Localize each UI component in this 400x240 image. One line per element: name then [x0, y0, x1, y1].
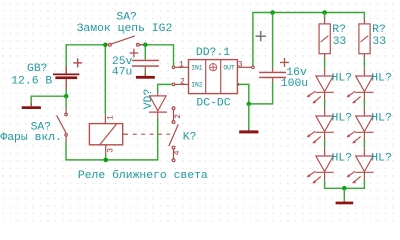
wire battery to SA2: [65, 96, 67, 108]
wire relay coil riser: [104, 45, 106, 115]
svg-text:2: 2: [180, 77, 185, 86]
svg-text:OUT: OUT: [223, 65, 235, 72]
svg-text:Замок цепь IG2: Замок цепь IG2: [77, 23, 173, 35]
wire cap47 drop: [144, 45, 146, 59]
capacitor C1 25v 47u: [130, 49, 146, 71]
svg-text:100u: 100u: [281, 78, 308, 90]
svg-text:HL?: HL?: [371, 72, 392, 84]
wire LED2 to LED3: [324, 140, 326, 148]
svg-text:1: 1: [107, 115, 116, 120]
svg-text:3: 3: [106, 148, 115, 153]
battery GB1: [66, 58, 82, 89]
svg-text:3: 3: [238, 60, 243, 69]
svg-text:47u: 47u: [112, 67, 133, 79]
node junction gnd right: [247, 102, 251, 106]
svg-text:IN2: IN2: [191, 82, 203, 89]
LED HL4: [347, 68, 374, 104]
ground bottom right: [343, 200, 345, 203]
switch K1 contact: [169, 107, 178, 162]
svg-text:1: 1: [179, 60, 184, 69]
svg-text:VD?: VD?: [143, 89, 155, 110]
wire DD right pin to gnd junction: [238, 84, 249, 104]
node junction bottom gnd: [342, 186, 347, 191]
wire battery minus: [31, 89, 66, 103]
svg-text:DC-DC: DC-DC: [196, 97, 230, 109]
wire R1 to LED1: [324, 59, 326, 68]
wire LED3 to bottom rail: [325, 180, 365, 189]
cursor cross: [256, 31, 267, 41]
switch SA2 headlights: [57, 108, 68, 142]
wire R2 to LED4: [363, 59, 365, 68]
svg-text:R?: R?: [332, 24, 346, 36]
node junction cap16 top: [270, 10, 275, 15]
capacitor C2 16v 100u: [273, 58, 289, 82]
diode VD1: [149, 93, 167, 119]
svg-text:SA?: SA?: [116, 12, 137, 24]
op-amp U1 dc-dc block: [189, 60, 238, 94]
svg-text:33: 33: [372, 36, 386, 48]
svg-text:HL?: HL?: [332, 72, 353, 84]
wire cap16 bottom to junction: [249, 82, 273, 104]
wire LED4 to LED5: [363, 99, 365, 107]
svg-text:R?: R?: [372, 24, 386, 36]
node junction battery-switch: [103, 43, 108, 48]
resistor R2: [363, 18, 365, 24]
wire cap47 to gnd: [144, 71, 146, 74]
wire switch to DD IN1: [140, 45, 174, 66]
svg-text:2: 2: [174, 114, 183, 119]
svg-text:12.6 В: 12.6 В: [11, 75, 52, 87]
ground dc-dc: [248, 129, 250, 131]
wire LED1 to LED2: [324, 99, 326, 107]
svg-text:HL?: HL?: [332, 152, 353, 164]
svg-text:HL?: HL?: [371, 152, 392, 164]
svg-text:DD?.1: DD?.1: [196, 47, 230, 59]
svg-text:HL?: HL?: [332, 112, 353, 124]
LED HL6: [347, 147, 374, 183]
svg-text:GB?: GB?: [27, 63, 48, 75]
wire gnd right drop: [248, 104, 250, 129]
resistor R1: [324, 18, 326, 24]
svg-text:4: 4: [173, 150, 182, 155]
wire OUT riser: [253, 13, 365, 67]
wire R1 top stub: [324, 13, 326, 19]
wire bottom gnd drop: [343, 188, 345, 201]
node junction relay bottom: [103, 158, 108, 163]
LED HL3: [307, 147, 334, 183]
wire battery plus riser: [66, 45, 108, 74]
LED HL2: [307, 107, 334, 143]
LED HL1: [307, 68, 334, 104]
switch SA1 ignition: [107, 36, 143, 46]
svg-text:Фары вкл.: Фары вкл.: [0, 132, 62, 144]
wire IN2 to diode: [158, 84, 172, 92]
LED HL5: [347, 107, 374, 143]
node junction battery minus: [64, 94, 69, 99]
node junction R1 top: [322, 10, 327, 15]
pin 2: [175, 83, 188, 85]
svg-text:K?: K?: [183, 132, 197, 144]
wire LED5 to LED6: [363, 140, 365, 148]
svg-text:Реле ближнего света: Реле ближнего света: [78, 169, 208, 182]
wire diode to bottom rail: [66, 118, 158, 160]
pin 1: [175, 66, 188, 68]
wire dashed mechanical link: [133, 133, 170, 135]
wire relay pin3 stub: [105, 154, 107, 160]
ground battery: [30, 103, 32, 106]
node junction cap47: [143, 43, 148, 48]
svg-text:HL?: HL?: [371, 112, 392, 124]
relay K1 coil: [89, 124, 122, 145]
wire cap16 drop: [272, 13, 274, 68]
pin 3: [237, 66, 251, 68]
ground cap47: [144, 74, 146, 76]
svg-text:33: 33: [333, 36, 347, 48]
svg-text:IN1: IN1: [191, 65, 203, 72]
